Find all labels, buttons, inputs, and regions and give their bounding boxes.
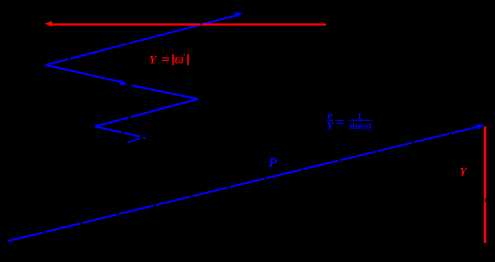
svg-text:sin(α): sin(α)	[349, 121, 372, 132]
svg-text:1: 1	[357, 111, 361, 121]
svg-text:P: P	[269, 155, 278, 170]
svg-text:Y: Y	[460, 167, 468, 179]
